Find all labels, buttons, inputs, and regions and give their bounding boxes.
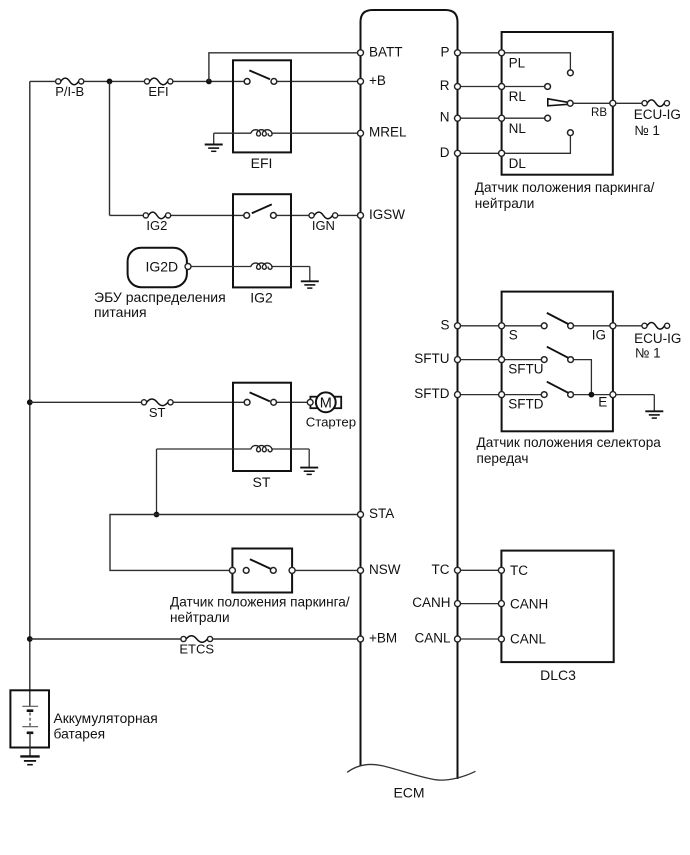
svg-text:SFTU: SFTU — [508, 362, 543, 377]
svg-text:Аккумуляторная: Аккумуляторная — [54, 711, 158, 726]
park/neutral position sensor box — [502, 32, 613, 175]
svg-text:CANL: CANL — [510, 632, 547, 647]
wire top feed row — [30, 80, 358, 82]
wire SFTD internal — [505, 394, 542, 396]
shift selector sensor box — [502, 292, 613, 432]
battery plate short 2 — [27, 731, 34, 734]
battery plate long 2 — [22, 726, 38, 728]
svg-text:D: D — [440, 145, 450, 160]
fuse ECU-IG No1 lower — [642, 323, 647, 328]
relay EFI coil — [251, 130, 272, 136]
block IG2D power distribution ECU — [128, 248, 187, 287]
relay EFI switch contacts — [244, 79, 250, 85]
pins TC CANH CANL on ECM edge — [455, 567, 461, 573]
relay IG2 switch blade — [252, 204, 272, 213]
ground at EFI relay — [213, 133, 215, 144]
svg-text:BATT: BATT — [369, 44, 403, 59]
svg-text:RB: RB — [591, 107, 607, 119]
wire NL internal — [505, 117, 545, 119]
svg-text:IG2: IG2 — [146, 218, 167, 233]
junction node STA coil tap — [154, 512, 160, 518]
NSW switch contacts — [243, 568, 249, 574]
wire SFTU to E node — [574, 360, 592, 395]
park/neutral switch NSW box — [232, 549, 292, 593]
wire NSW to ECM — [295, 569, 357, 571]
wire S row ECM to sensor — [461, 325, 499, 327]
pins on selector box edge — [499, 323, 505, 329]
fuse ST — [141, 400, 146, 405]
battery plate long 1 — [22, 705, 38, 707]
battery negative lead — [29, 733, 31, 757]
contacts SFTU switch — [541, 357, 547, 363]
svg-text:EFI: EFI — [148, 84, 168, 99]
svg-text:№ 1: № 1 — [635, 345, 661, 360]
wire CANH row — [461, 603, 499, 605]
selector wiper arm — [548, 99, 567, 106]
contacts S switch — [541, 323, 547, 329]
svg-text:+BM: +BM — [369, 631, 397, 646]
svg-text:P: P — [440, 44, 449, 59]
junction node at P/I-B out — [107, 79, 113, 85]
svg-text:TC: TC — [510, 563, 528, 578]
svg-text:+B: +B — [369, 73, 386, 88]
svg-text:ECM: ECM — [393, 785, 424, 801]
svg-text:E: E — [598, 395, 607, 410]
svg-text:TC: TC — [432, 562, 450, 577]
ground at battery — [20, 755, 39, 757]
contacts SFTD switch — [541, 392, 547, 398]
svg-text:IGSW: IGSW — [369, 207, 405, 222]
wire battery positive bus — [29, 81, 31, 706]
svg-text:ETCS: ETCS — [179, 641, 214, 656]
pin starter input — [307, 399, 313, 405]
relay ST box — [233, 383, 291, 471]
svg-text:Датчик положения паркинга/: Датчик положения паркинга/ — [475, 180, 655, 195]
blade S switch — [547, 313, 568, 324]
svg-text:SFTU: SFTU — [414, 351, 449, 366]
svg-text:NL: NL — [509, 121, 527, 136]
contact RL open — [545, 84, 551, 90]
relay IG2 coil — [251, 263, 272, 269]
wire SFTU internal — [505, 359, 542, 361]
pin RB on box edge — [610, 100, 616, 106]
relay ST switch contacts — [244, 399, 250, 405]
battery B1 box — [10, 690, 49, 747]
wire CANL row — [461, 638, 499, 640]
pins PL RL NL DL on box edge — [499, 50, 505, 56]
wire TC row — [461, 569, 499, 571]
wire IG to fuse — [616, 325, 642, 327]
svg-text:MREL: MREL — [369, 125, 407, 140]
pin ECM NSW — [358, 567, 364, 573]
contact DL open — [568, 130, 574, 136]
svg-text:№ 1: № 1 — [634, 123, 660, 138]
wire N row ECM to sensor — [461, 117, 499, 119]
wire ST coil to STA — [156, 449, 158, 515]
svg-text:передач: передач — [477, 451, 529, 466]
relay IG2 box — [233, 194, 291, 287]
wire P row ECM to sensor — [461, 52, 499, 54]
blade SFTD switch — [547, 382, 568, 393]
svg-text:Датчик положения паркинга/: Датчик положения паркинга/ — [170, 594, 350, 609]
ground at IG2 relay — [309, 267, 311, 282]
fuse P/I-B — [56, 79, 61, 84]
svg-text:N: N — [440, 110, 450, 125]
svg-text:ST: ST — [253, 474, 271, 490]
NSW pins on box edges — [229, 567, 235, 573]
svg-text:IGN: IGN — [312, 218, 335, 233]
svg-text:ECU-IG: ECU-IG — [634, 331, 681, 346]
svg-text:DLC3: DLC3 — [540, 667, 576, 683]
pin ECM MREL — [358, 130, 364, 136]
battery cells dashed link — [29, 713, 31, 727]
svg-text:CANL: CANL — [414, 631, 451, 646]
svg-text:Датчик положения селектора: Датчик положения селектора — [477, 435, 662, 450]
contact NL open — [545, 115, 551, 121]
svg-text:P/I-B: P/I-B — [55, 84, 84, 99]
wire wiper to RB — [573, 102, 610, 104]
battery plate short 1 — [27, 709, 34, 712]
relay ST coil — [251, 446, 272, 452]
pin IG2D output — [185, 264, 191, 270]
pin ECM +B — [358, 78, 364, 84]
fuse EFI — [144, 79, 149, 84]
junction node ST branch — [27, 399, 33, 405]
wire S to IG — [574, 325, 610, 327]
junction node BATT branch — [206, 79, 212, 85]
wire IG2 row — [110, 214, 358, 216]
fuse ETCS — [181, 636, 186, 641]
wire SFTD to E — [574, 394, 610, 396]
DLC3 box — [501, 551, 613, 663]
fuse IG2 — [143, 213, 148, 218]
ground at selector sensor — [653, 395, 655, 412]
pin ECM IGSW — [358, 212, 364, 218]
blade SFTU switch — [547, 347, 568, 358]
svg-text:STA: STA — [369, 506, 394, 521]
pin ECM BATT — [358, 50, 364, 56]
svg-text:NSW: NSW — [369, 562, 401, 577]
wire E to ground — [616, 394, 654, 396]
pins P R N D on ECM edge — [455, 50, 461, 56]
contact wiper — [567, 100, 573, 106]
pin ECM STA — [358, 512, 364, 518]
junction node E common — [589, 392, 595, 398]
svg-text:ST: ST — [149, 405, 166, 420]
NSW switch blade — [250, 559, 271, 569]
wire PL internal — [505, 53, 571, 70]
pin ECM +BM — [358, 636, 364, 642]
wire ST coil row — [157, 448, 310, 450]
svg-text:PL: PL — [509, 56, 526, 71]
svg-text:ECU-IG: ECU-IG — [634, 107, 681, 122]
wire STA row — [110, 515, 358, 571]
pin IG on box edge — [610, 323, 616, 329]
wire ST row — [30, 401, 308, 403]
svg-text:CANH: CANH — [412, 595, 450, 610]
ground at ST relay — [308, 449, 310, 468]
relay IG2 switch contacts — [244, 213, 250, 219]
wire SFTD row ECM to sensor — [461, 394, 499, 396]
wire RB to fuse — [616, 102, 642, 104]
fuse IGN — [309, 213, 314, 218]
svg-text:S: S — [440, 317, 449, 332]
svg-text:нейтрали: нейтрали — [475, 196, 535, 211]
svg-text:IG2: IG2 — [250, 290, 273, 306]
pins S SFTU SFTD on ECM edge — [455, 323, 461, 329]
svg-text:Стартер: Стартер — [306, 414, 356, 429]
svg-text:ЭБУ распределения: ЭБУ распределения — [94, 289, 226, 305]
wire ETCS row — [30, 638, 358, 640]
svg-text:нейтрали: нейтрали — [170, 610, 230, 625]
svg-text:SFTD: SFTD — [508, 397, 543, 412]
wire RL internal — [505, 86, 545, 88]
wire BATT branch — [209, 53, 358, 82]
ECM box outline — [361, 10, 458, 779]
wire S internal — [505, 325, 542, 327]
wire SFTU row ECM to sensor — [461, 359, 499, 361]
svg-text:R: R — [440, 78, 450, 93]
wire D row ECM to sensor — [461, 152, 499, 154]
svg-text:S: S — [509, 328, 518, 343]
svg-text:IG: IG — [592, 328, 606, 343]
svg-text:M: M — [320, 395, 332, 411]
pin E on box edge — [610, 392, 616, 398]
wire DL internal — [505, 136, 571, 154]
svg-text:EFI: EFI — [251, 155, 273, 171]
wire IG2 branch vertical — [109, 81, 111, 215]
svg-text:RL: RL — [509, 89, 527, 104]
pins on DLC3 edge — [498, 567, 504, 573]
fuse ECU-IG No1 upper — [642, 101, 647, 106]
svg-text:DL: DL — [509, 156, 527, 171]
relay EFI switch blade — [249, 70, 270, 79]
svg-text:IG2D: IG2D — [145, 258, 178, 274]
svg-text:питания: питания — [94, 304, 147, 320]
wire R row ECM to sensor — [461, 86, 499, 88]
contact PL open — [568, 70, 574, 76]
relay ST switch blade — [250, 392, 270, 401]
svg-text:батарея: батарея — [54, 726, 106, 741]
starter motor M1 — [310, 397, 341, 409]
junction node ETCS branch — [27, 636, 33, 642]
svg-text:CANH: CANH — [510, 596, 548, 611]
wire EFI coil row — [214, 132, 358, 134]
wire IG2 coil row — [191, 266, 310, 268]
relay EFI box — [233, 60, 291, 152]
svg-text:SFTD: SFTD — [414, 386, 449, 401]
